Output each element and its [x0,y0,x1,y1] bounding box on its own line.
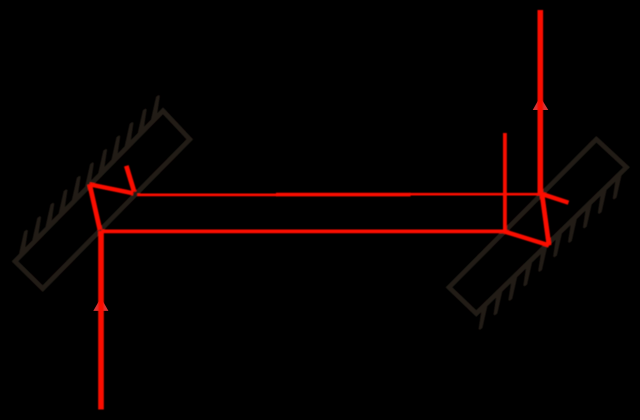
refracted segment A to B inside M1 [90,184,100,229]
incident ray (vertical, entering M1 at node A) [98,231,104,410]
mirror M2 silvered-back hatching [480,173,621,329]
exit ray (vertical, leaving M2 at node C') [537,10,543,196]
main reflected ray segment 2 [276,193,411,197]
front-surface ghost ray A to A' (lower horizontal) [102,229,506,233]
arrowhead on exit ray [533,97,549,110]
main reflected ray C to C' (upper horizontal, segment 1) [137,194,277,197]
reflected segment B to C inside M1 [90,184,134,193]
mirror M1 silvered-back hatching [20,96,159,256]
mirror M2 body (right tilted glass slab) [449,139,627,313]
ghost exit ray at A' (short vertical) [503,133,507,232]
refracted segment A' to B' inside M2 [505,232,550,246]
internal-reflection stub at C inside M1 [126,166,134,192]
internal-reflection stub at C' inside M2 [542,194,569,203]
arrowhead on incident ray [93,298,108,311]
mirror M1 body (left tilted glass slab) [15,111,190,289]
reflected segment B' to C' inside M2 [542,193,549,246]
main reflected ray segment 3 [410,193,544,196]
